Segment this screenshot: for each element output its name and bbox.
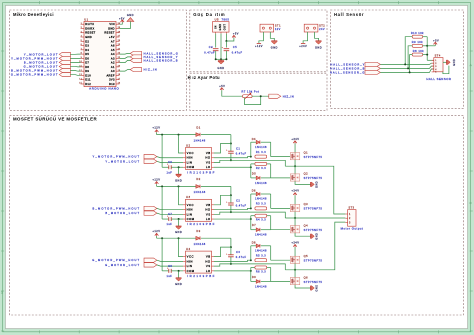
- svg-text:ST4: ST4: [435, 55, 441, 58]
- section box MOSFET SURUCU VE MOSFETLER: [10, 115, 464, 315]
- wire (HO): [214, 208, 251, 209]
- port flag Y_MOTOR_PWM_HOUT: [93, 154, 157, 158]
- svg-text:G_MOTOR_LOUT: G_MOTOR_LOUT: [105, 263, 140, 267]
- wire: [156, 236, 158, 238]
- svg-text:R8 10k: R8 10k: [413, 49, 424, 53]
- wire (wiper loop): [245, 96, 261, 104]
- port flag Y_MOTOR_LOUT: [105, 159, 157, 163]
- wire: [408, 46, 412, 69]
- ground (driver bypass): [175, 226, 182, 234]
- connector ST4 HALL SENSOR: [426, 55, 451, 82]
- svg-text:HALL_SENSOR_B: HALL_SENSOR_B: [144, 58, 179, 62]
- svg-text:STP75NF75: STP75NF75: [304, 155, 323, 159]
- port flag HALL_SENSOR_B: [130, 58, 178, 62]
- wire: [271, 177, 291, 179]
- svg-text:D2: D2: [85, 39, 89, 43]
- svg-text:GND: GND: [315, 46, 322, 49]
- svg-text:26: 26: [118, 40, 121, 42]
- svg-text:GND: GND: [175, 283, 182, 286]
- svg-text:1N4148: 1N4148: [194, 138, 206, 142]
- svg-text:COM: COM: [187, 217, 195, 221]
- svg-text:5: 5: [81, 40, 82, 42]
- wire: [380, 69, 433, 72]
- wire: [157, 161, 183, 162]
- svg-text:VIN: VIN: [109, 22, 114, 26]
- power flag +24V (Q5): [291, 241, 299, 248]
- svg-text:LIN: LIN: [187, 212, 193, 216]
- power flag +5V (nano VIN): [119, 17, 125, 22]
- resistor R8 10k: [412, 49, 424, 56]
- svg-text:GND: GND: [127, 14, 134, 17]
- svg-text:24V: 24V: [319, 28, 325, 31]
- gate driver U2 IR2103PBF: [183, 143, 216, 174]
- wire: [225, 41, 227, 48]
- svg-text:4: 4: [81, 36, 82, 38]
- svg-text:A5: A5: [111, 48, 115, 52]
- svg-text:GND: GND: [453, 59, 456, 66]
- svg-text:C3: C3: [236, 251, 240, 254]
- section box Hiz Ayar Potu: [190, 73, 327, 110]
- wire (VS to phase): [214, 212, 285, 218]
- resistor R10 10k: [411, 31, 424, 38]
- diode D4 1N4148: [251, 138, 271, 157]
- svg-text:VS: VS: [206, 264, 211, 268]
- microcontroller U1 ARDUINO NANO: [79, 17, 120, 90]
- wire: [215, 51, 217, 60]
- svg-text:18: 18: [118, 74, 121, 76]
- wire: [157, 208, 183, 209]
- ground (driver bypass): [175, 174, 182, 182]
- wire (VS to phase): [214, 160, 285, 166]
- svg-text:GND: GND: [316, 233, 319, 240]
- svg-text:U3: U3: [186, 195, 191, 199]
- ground (hall): [447, 59, 456, 66]
- svg-text:Güç Da ıtım: Güç Da ıtım: [193, 12, 225, 17]
- wire (LO): [214, 166, 251, 168]
- svg-text:HIZ_IN: HIZ_IN: [283, 94, 295, 98]
- wire: [271, 259, 291, 261]
- svg-text:Motor Output: Motor Output: [341, 227, 364, 231]
- svg-text:27: 27: [118, 36, 121, 38]
- wire: [230, 195, 232, 203]
- svg-text:VB: VB: [206, 255, 211, 259]
- port flag B_MOTOR_LOUT: [24, 60, 71, 64]
- svg-text:LO: LO: [206, 217, 211, 221]
- svg-text:A: A: [470, 63, 472, 67]
- svg-text:Y_MOTOR_PWM_HOUT: Y_MOTOR_PWM_HOUT: [11, 56, 58, 60]
- wire: [294, 212, 296, 218]
- svg-text:GND: GND: [175, 179, 182, 182]
- wire: [70, 74, 80, 77]
- ground (ST2): [315, 41, 322, 50]
- svg-text:14: 14: [79, 78, 82, 80]
- svg-text:U2: U2: [186, 143, 191, 147]
- svg-text:1N4148: 1N4148: [255, 146, 267, 149]
- capacitor C2 0.47uF: [226, 199, 246, 207]
- svg-text:+12V: +12V: [152, 126, 160, 130]
- svg-text:HALL_SENSOR_G: HALL_SENSOR_G: [144, 51, 179, 55]
- wire: [162, 218, 169, 220]
- wire: [294, 218, 296, 226]
- svg-text:C7: C7: [168, 213, 172, 216]
- wire: [443, 61, 447, 63]
- wire: [303, 32, 308, 43]
- svg-text:+5V: +5V: [109, 35, 115, 39]
- diode D8 1N4148: [251, 242, 271, 261]
- svg-text:HALL SENSOR: HALL SENSOR: [426, 77, 451, 81]
- wire: [226, 34, 234, 41]
- wire: [119, 22, 122, 24]
- svg-text:R7 10k Pot: R7 10k Pot: [241, 89, 259, 93]
- svg-text:+12V: +12V: [255, 45, 263, 48]
- svg-text:C: C: [470, 201, 472, 205]
- svg-text:STP75NF75: STP75NF75: [304, 280, 323, 284]
- wire (phase): [285, 166, 345, 214]
- svg-text:D13: D13: [109, 82, 115, 86]
- svg-text:D9: D9: [85, 69, 89, 73]
- power flag +12V: [152, 126, 160, 133]
- ground (Q2): [311, 181, 319, 188]
- svg-text:STP75NF75: STP75NF75: [304, 228, 323, 232]
- svg-text:GND: GND: [85, 35, 92, 39]
- svg-text:STP75NF75: STP75NF75: [304, 176, 323, 180]
- svg-text:VCC: VCC: [187, 203, 194, 207]
- svg-text:D1: D1: [196, 125, 200, 129]
- wire: [259, 32, 264, 43]
- wire: [119, 70, 130, 72]
- wire (VS to phase): [214, 264, 285, 270]
- svg-text:GND: GND: [217, 67, 224, 70]
- port flag HALL_SENSOR_G: [130, 51, 179, 55]
- wire: [271, 281, 291, 283]
- ground (Q6): [311, 284, 319, 291]
- svg-text:GND: GND: [108, 26, 115, 30]
- wire: [157, 260, 183, 261]
- svg-text:C2: C2: [236, 199, 240, 202]
- wire: [70, 65, 80, 67]
- wire: [225, 51, 227, 60]
- svg-text:24: 24: [118, 48, 121, 50]
- gate driver U4 IR2103PBF: [183, 247, 216, 278]
- wire (HO): [214, 157, 251, 158]
- power flag +5V (7805 out): [232, 33, 239, 38]
- svg-text:D8: D8: [85, 65, 89, 69]
- wire: [271, 156, 291, 158]
- svg-text:+: +: [222, 47, 224, 49]
- screw terminal ST1 12V: [260, 24, 281, 32]
- svg-text:IR2103PBF: IR2103PBF: [187, 222, 216, 226]
- resistor R9 10k: [412, 40, 423, 47]
- wire: [156, 184, 158, 186]
- svg-text:+5V: +5V: [219, 85, 225, 88]
- wire (gnd hook): [443, 66, 449, 74]
- svg-text:R1 3.3: R1 3.3: [256, 151, 266, 154]
- svg-text:B_MOTOR_LOUT: B_MOTOR_LOUT: [24, 60, 59, 64]
- svg-text:RESET: RESET: [104, 31, 114, 35]
- wire: [161, 238, 163, 271]
- wire: [216, 58, 227, 60]
- svg-text:+: +: [226, 202, 228, 204]
- svg-text:1uF: 1uF: [166, 223, 172, 226]
- port flag HALL_SENSOR_Y: [330, 62, 380, 66]
- ground (driver bypass): [175, 278, 182, 286]
- wire: [423, 36, 428, 38]
- svg-text:D2: D2: [196, 177, 200, 181]
- wire: [178, 167, 180, 174]
- svg-text:U1: U1: [84, 17, 88, 21]
- wire: [423, 54, 428, 56]
- port flag B_MOTOR_PWM_HOUT: [93, 206, 157, 210]
- svg-text:D3: D3: [85, 44, 89, 48]
- diode D9 1N4148: [251, 276, 271, 289]
- wire: [201, 237, 231, 239]
- section box Mikro Denetleyici: [10, 10, 187, 110]
- svg-text:3: 3: [349, 222, 351, 224]
- svg-text:6: 6: [81, 44, 82, 46]
- svg-text:D11: D11: [85, 78, 91, 82]
- svg-text:A2: A2: [111, 61, 115, 65]
- resistor R6 3.3: [251, 266, 271, 282]
- port flag Y_MOTOR_LOUT: [24, 52, 71, 56]
- svg-text:1N4148: 1N4148: [255, 286, 267, 289]
- svg-text:H ız Ayar Potu: H ız Ayar Potu: [188, 75, 220, 80]
- port flag G_MOTOR_LOUT: [24, 64, 71, 68]
- port flag HALL_SENSOR_G: [330, 70, 380, 74]
- svg-text:Q2: Q2: [304, 172, 309, 176]
- svg-text:HO: HO: [205, 259, 211, 263]
- svg-text:A6: A6: [111, 44, 115, 48]
- resistor R1 3.3: [255, 151, 267, 158]
- svg-text:LO: LO: [206, 165, 211, 169]
- wire: [230, 135, 232, 144]
- wire: [294, 195, 296, 204]
- svg-text:HALL_SENSOR_G: HALL_SENSOR_G: [330, 70, 365, 74]
- svg-text:1: 1: [1, 290, 3, 294]
- svg-text:C4: C4: [209, 46, 213, 49]
- svg-text:VCC: VCC: [187, 255, 194, 259]
- svg-text:HIN: HIN: [187, 208, 193, 212]
- wire: [294, 247, 296, 256]
- wire (VCC): [179, 135, 184, 153]
- wire: [201, 134, 231, 136]
- svg-text:D3: D3: [196, 229, 200, 233]
- power flag +12V: [152, 177, 160, 184]
- resistor R3 3.3: [255, 203, 267, 210]
- svg-text:3: 3: [81, 31, 82, 33]
- svg-text:Y_MOTOR_PWM_HOUT: Y_MOTOR_PWM_HOUT: [93, 155, 141, 159]
- wire (phase): [285, 222, 345, 270]
- capacitor C1 0.47uF: [226, 148, 246, 156]
- wire: [162, 270, 169, 272]
- wire: [157, 185, 196, 187]
- wire: [427, 45, 433, 47]
- svg-text:U5: U5: [215, 17, 219, 21]
- svg-text:R9 10k: R9 10k: [412, 40, 423, 44]
- svg-text:20: 20: [118, 66, 121, 68]
- wire: [294, 263, 296, 269]
- svg-text:G_MOTOR_PWM_HOUT: G_MOTOR_PWM_HOUT: [92, 258, 140, 262]
- transistor Q2 STP75NF75: [290, 172, 322, 181]
- wire: [380, 66, 433, 68]
- wire: [230, 153, 232, 160]
- regulator U5 7805: [213, 17, 230, 33]
- svg-text:STP75NF75: STP75NF75: [304, 207, 323, 211]
- port flag HIZ_IN (pot): [269, 94, 294, 98]
- svg-text:Q4: Q4: [304, 224, 309, 228]
- wire: [295, 285, 311, 288]
- wire (+5V rail): [426, 37, 428, 61]
- wire: [423, 45, 428, 47]
- potentiometer R7 10k Pot: [241, 89, 259, 99]
- wire: [230, 238, 232, 247]
- svg-text:HO: HO: [205, 156, 211, 160]
- wire: [271, 229, 291, 231]
- wire: [70, 57, 80, 59]
- wire: [230, 205, 232, 212]
- wire: [178, 219, 180, 226]
- wire: [405, 37, 412, 65]
- wire: [119, 52, 130, 55]
- diode D6 1N4148: [251, 190, 271, 209]
- svg-text:+5V: +5V: [433, 39, 439, 42]
- svg-text:1N4148: 1N4148: [255, 234, 267, 237]
- transistor Q1 STP75NF75: [290, 150, 322, 159]
- svg-text:Q3: Q3: [304, 202, 309, 206]
- wire: [161, 186, 163, 219]
- svg-text:B_MOTOR_LOUT: B_MOTOR_LOUT: [105, 211, 140, 215]
- svg-text:D5: D5: [252, 172, 256, 175]
- gate driver U3 IR2103PBF: [183, 195, 216, 226]
- svg-text:0.47uF: 0.47uF: [236, 204, 247, 207]
- svg-text:17: 17: [118, 78, 121, 80]
- capacitor C5 0.47uF: [222, 46, 243, 54]
- connector ST3 Motor Output: [341, 207, 364, 231]
- section box Hall Sensor: [330, 10, 463, 108]
- resistor R2 3.3: [251, 162, 271, 178]
- svg-text:A3: A3: [111, 56, 115, 60]
- svg-text:GND: GND: [219, 23, 222, 30]
- svg-text:LIN: LIN: [187, 160, 193, 164]
- svg-text:7: 7: [81, 48, 82, 50]
- transistor Q6 STP75NF75: [290, 275, 322, 284]
- svg-text:D7: D7: [85, 61, 89, 65]
- wire: [157, 134, 196, 136]
- svg-text:Q6: Q6: [304, 275, 309, 279]
- svg-text:1N4148: 1N4148: [255, 182, 267, 185]
- transistor Q4 STP75NF75: [290, 224, 322, 233]
- svg-text:C1: C1: [236, 148, 240, 151]
- svg-text:R10 10k: R10 10k: [411, 31, 424, 35]
- svg-text:G_MOTOR_PWM_HOUT: G_MOTOR_PWM_HOUT: [11, 73, 59, 77]
- power flag +5V (hall): [433, 39, 439, 45]
- wire: [162, 166, 169, 168]
- svg-text:HIZ_IN: HIZ_IN: [144, 68, 158, 72]
- svg-text:D10: D10: [85, 73, 91, 77]
- wire: [171, 166, 183, 168]
- port flag G_MOTOR_LOUT: [105, 263, 157, 267]
- svg-text:HALL_SENSOR_Y: HALL_SENSOR_Y: [144, 55, 179, 59]
- svg-text:HO: HO: [205, 208, 211, 212]
- wire: [156, 132, 158, 134]
- svg-text:0.47uF: 0.47uF: [232, 51, 243, 54]
- svg-text:A7: A7: [111, 39, 115, 43]
- svg-text:1N4148: 1N4148: [255, 198, 267, 201]
- wire (LO): [214, 270, 251, 272]
- svg-text:15: 15: [79, 83, 82, 85]
- svg-text:LIN: LIN: [187, 264, 193, 268]
- svg-text:R5 3.3: R5 3.3: [256, 255, 266, 258]
- svg-text:IN: IN: [215, 25, 218, 28]
- wire: [222, 90, 243, 96]
- svg-text:Y_MOTOR_LOUT: Y_MOTOR_LOUT: [105, 159, 140, 163]
- diode D3 1N4148: [194, 229, 206, 246]
- wire (phase): [285, 217, 345, 219]
- svg-text:1: 1: [81, 23, 82, 25]
- wire: [119, 60, 130, 62]
- wire: [70, 53, 80, 55]
- wire (VCC): [179, 186, 184, 204]
- transistor Q3 STP75NF75: [290, 202, 322, 211]
- svg-text:2: 2: [81, 27, 82, 29]
- svg-text:VB: VB: [206, 203, 211, 207]
- power flag +5V (pot): [219, 85, 225, 90]
- transistor Q5 STP75NF75: [290, 254, 322, 263]
- svg-text:D4: D4: [252, 138, 256, 141]
- svg-text:ST3: ST3: [348, 207, 354, 210]
- svg-text:0.47uF: 0.47uF: [236, 153, 247, 156]
- svg-text:Q5: Q5: [304, 254, 309, 258]
- svg-text:8: 8: [81, 53, 82, 55]
- wire: [252, 95, 269, 97]
- power flag +12V: [255, 43, 263, 48]
- wire: [171, 218, 183, 220]
- svg-text:Y_MOTOR_LOUT: Y_MOTOR_LOUT: [24, 52, 59, 56]
- svg-text:MOSFET SÜRÜCÜ VE MOSFETLER: MOSFET SÜRÜCÜ VE MOSFETLER: [13, 117, 97, 122]
- port flag HIZ_IN (nano A0): [130, 68, 157, 72]
- svg-text:D0/RX: D0/RX: [85, 26, 94, 30]
- wire: [157, 237, 196, 239]
- svg-text:VB: VB: [206, 151, 211, 155]
- svg-text:1uF: 1uF: [166, 275, 172, 278]
- svg-text:D9: D9: [252, 276, 256, 279]
- wire: [70, 70, 80, 73]
- svg-text:7805: 7805: [222, 17, 230, 21]
- wire: [410, 55, 413, 73]
- diode D7 1N4148: [251, 224, 271, 237]
- wire: [157, 157, 183, 158]
- svg-text:VS: VS: [206, 160, 211, 164]
- wire: [230, 247, 232, 255]
- port flag B_MOTOR_LOUT: [105, 211, 157, 215]
- capacitor C3 0.47uF: [226, 251, 246, 259]
- svg-text:AREF: AREF: [106, 73, 114, 77]
- svg-text:R4 3.3: R4 3.3: [256, 219, 266, 222]
- svg-text:R2 3.3: R2 3.3: [256, 167, 266, 170]
- wire: [230, 257, 232, 264]
- svg-text:Q1: Q1: [304, 150, 309, 154]
- ground (ST1): [271, 41, 278, 50]
- svg-text:HIN: HIN: [187, 156, 193, 160]
- svg-text:A4: A4: [111, 52, 115, 56]
- power flag +24V (Q3): [291, 189, 299, 196]
- diode D1 1N4148: [194, 125, 206, 142]
- capacitor C8 1uF: [166, 265, 172, 278]
- svg-text:0.47uF: 0.47uF: [204, 51, 215, 54]
- svg-text:GND: GND: [316, 181, 319, 188]
- svg-text:Mikro Denetleyici: Mikro Denetleyici: [13, 12, 54, 17]
- wire: [294, 166, 296, 174]
- svg-text:LO: LO: [206, 269, 211, 273]
